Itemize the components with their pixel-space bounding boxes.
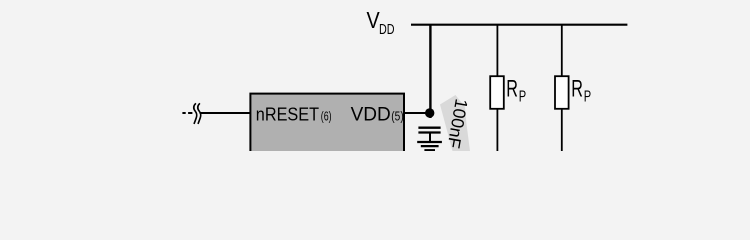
svg-text:P: P <box>584 89 591 106</box>
wire capacitor to ground <box>429 134 431 142</box>
wire rail to resistor RP1 <box>496 25 498 77</box>
svg-text:nRESET: nRESET <box>256 104 319 125</box>
resistor RP2 <box>555 76 569 109</box>
wire from break to box <box>200 112 252 114</box>
junction node <box>425 108 434 117</box>
svg-text:VDD: VDD <box>351 105 391 126</box>
ground <box>417 142 442 150</box>
wire RP2 to bottom <box>561 108 563 151</box>
svg-text:DD: DD <box>379 21 395 38</box>
wire VDD pin to junction <box>404 112 430 114</box>
svg-text:P: P <box>519 89 526 106</box>
wire RP1 to bottom <box>496 108 498 151</box>
wire rail to resistor RP2 <box>561 25 563 77</box>
capacitor C plate 2 <box>418 131 440 133</box>
break squiggle <box>194 103 201 124</box>
svg-text:(5): (5) <box>391 109 403 124</box>
wire rail to junction <box>429 25 431 118</box>
wire stub before break <box>188 112 192 114</box>
wire dash (left continuation) <box>182 112 185 114</box>
svg-text:R: R <box>506 76 518 103</box>
resistor RP1 <box>490 76 504 109</box>
100nF highlight band <box>440 95 470 151</box>
svg-text:(6): (6) <box>321 109 332 124</box>
svg-text:R: R <box>571 76 583 103</box>
VDD rail <box>411 24 627 26</box>
IC box <box>250 94 404 156</box>
capacitor C plate 1 <box>418 127 440 129</box>
